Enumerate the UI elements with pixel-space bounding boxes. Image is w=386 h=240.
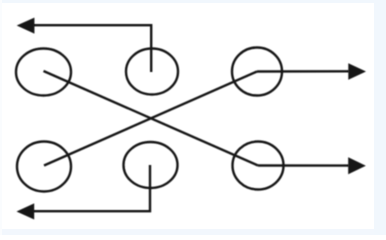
- arrowhead right bottom: [348, 157, 366, 174]
- node bottom-left: [17, 142, 71, 192]
- wire right exit from top-right node: [257, 70, 349, 73]
- wire top exit: from top-middle node up then left: [33, 25, 151, 72]
- node top-middle: [126, 49, 178, 95]
- wire diagonal top-left to bottom-right: [44, 71, 259, 166]
- wire diagonal bottom-left to top-right: [44, 72, 257, 166]
- border frame strips: [0, 0, 386, 3]
- node top-right: [232, 48, 282, 96]
- arrowhead left bottom: [17, 203, 35, 219]
- arrowhead left top: [17, 18, 35, 34]
- arrowhead right top: [348, 63, 366, 80]
- node bottom-right: [233, 142, 284, 190]
- wire bottom exit: from bottom-middle node down then left: [33, 165, 150, 211]
- wire right exit from bottom-right node: [258, 164, 349, 167]
- node bottom-middle: [124, 142, 178, 188]
- node top-left: [16, 49, 71, 96]
